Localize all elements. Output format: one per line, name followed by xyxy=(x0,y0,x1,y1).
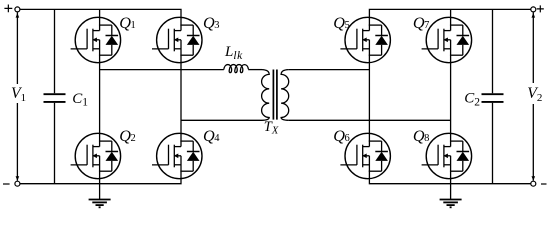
node + terminal top-left xyxy=(15,7,20,12)
transistor Q2 xyxy=(71,133,121,178)
svg-text:Q5: Q5 xyxy=(333,14,349,32)
wire xyxy=(368,63,370,134)
svg-text:Q8: Q8 xyxy=(413,127,429,145)
transistor Q6 xyxy=(340,133,390,178)
wire xyxy=(450,179,452,184)
minus sign left xyxy=(3,183,10,185)
wire xyxy=(180,63,182,134)
svg-text:Q7: Q7 xyxy=(413,14,429,32)
wire xyxy=(20,9,181,17)
wire xyxy=(99,9,101,17)
wire xyxy=(99,63,101,134)
svg-text:C1: C1 xyxy=(72,91,88,109)
ground xyxy=(440,184,462,208)
wire xyxy=(450,9,452,17)
wire xyxy=(248,69,262,71)
svg-text:V2: V2 xyxy=(527,85,542,104)
minus sign right xyxy=(541,183,547,185)
inductor Llk xyxy=(224,65,249,73)
wire xyxy=(369,9,530,17)
svg-text:Q2: Q2 xyxy=(119,127,135,145)
plus sign right xyxy=(537,5,544,12)
node - terminal bottom-right xyxy=(531,181,536,186)
wire xyxy=(369,179,530,184)
transistor Q7 xyxy=(422,17,472,62)
svg-text:V1: V1 xyxy=(11,85,26,104)
svg-text:Llk: Llk xyxy=(224,44,243,62)
transistor Q3 xyxy=(152,17,202,62)
transformer TX secondary xyxy=(281,70,289,121)
transistor Q4 xyxy=(152,133,202,178)
capacitor C2 xyxy=(492,9,494,183)
wire xyxy=(450,63,452,134)
transistor Q8 xyxy=(422,133,472,178)
voltage arrow V2 xyxy=(532,12,534,180)
node - terminal bottom-left xyxy=(15,181,20,186)
transformer TX primary xyxy=(262,70,270,121)
transistor Q5 xyxy=(340,17,390,62)
wire xyxy=(20,179,181,184)
svg-text:TX: TX xyxy=(264,119,279,137)
svg-text:Q4: Q4 xyxy=(203,127,220,145)
wire xyxy=(99,179,101,184)
svg-text:Q6: Q6 xyxy=(333,127,349,145)
capacitor C1 xyxy=(54,9,56,183)
voltage arrow V1 xyxy=(16,12,18,180)
wire xyxy=(100,69,224,71)
wire xyxy=(288,69,369,71)
svg-text:Q3: Q3 xyxy=(203,14,219,32)
svg-text:Q1: Q1 xyxy=(119,14,135,32)
svg-text:C2: C2 xyxy=(464,91,480,109)
node + terminal top-right xyxy=(531,7,536,12)
wire xyxy=(181,119,262,121)
transistor Q1 xyxy=(71,17,121,62)
transformer core xyxy=(273,70,277,120)
plus sign left xyxy=(4,5,12,13)
wire xyxy=(288,119,450,121)
ground xyxy=(89,184,111,208)
